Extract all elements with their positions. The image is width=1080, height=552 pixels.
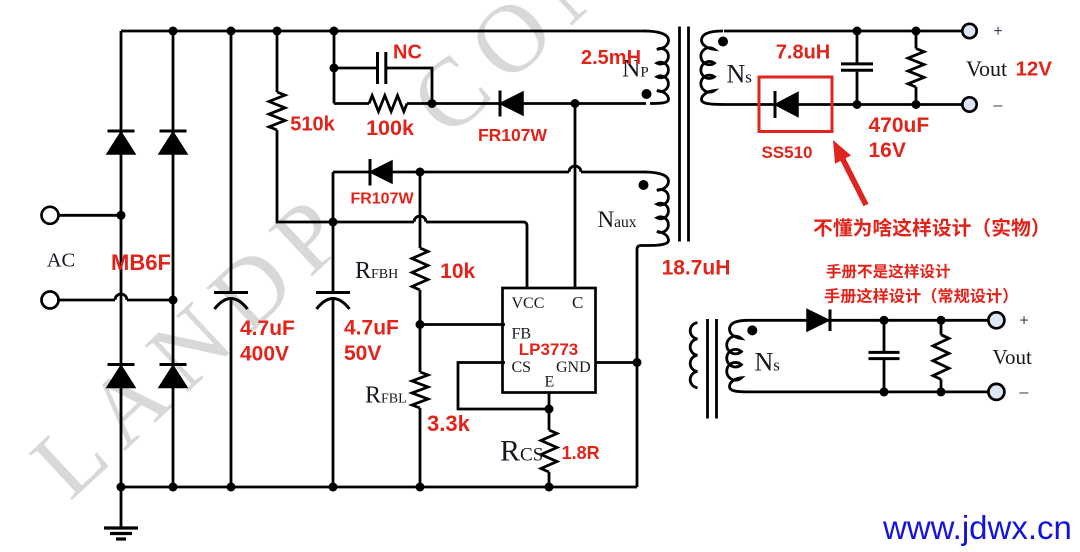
wire left vertical x121 <box>120 31 123 487</box>
second schematic: primary winding <box>690 323 697 388</box>
wire output top rail <box>724 30 962 33</box>
wire vertical x231 lower <box>230 299 233 488</box>
resistor output load <box>915 31 918 105</box>
op-amp U1 LP3773 box <box>503 288 596 393</box>
svg-text:2.5mH: 2.5mH <box>581 47 641 69</box>
terminal AC N <box>42 292 59 309</box>
red highlight box <box>759 77 832 132</box>
svg-text:400V: 400V <box>240 343 289 366</box>
wire hop over C line <box>569 166 581 172</box>
annotation text 3 <box>825 288 1008 304</box>
svg-text:510k: 510k <box>290 114 335 136</box>
second schematic: winding Ns <box>727 320 748 392</box>
wire x333 lower branch <box>332 172 335 291</box>
svg-text:12V: 12V <box>1016 58 1053 81</box>
transformer core <box>680 27 689 242</box>
resistor RCS 1.8R <box>541 430 557 472</box>
wire 510k branch x277 with turn to x333 <box>276 31 279 92</box>
diode FR107W D2 <box>369 159 372 186</box>
wire output bottom rail <box>722 103 962 106</box>
svg-text:50V: 50V <box>344 342 381 365</box>
svg-text:SS510: SS510 <box>761 143 812 162</box>
second schematic: capacitor <box>869 351 900 354</box>
node Naux phase dot <box>639 180 649 190</box>
svg-text:470uF: 470uF <box>869 114 930 137</box>
svg-text:–: – <box>994 97 1003 114</box>
svg-text:C: C <box>572 293 583 312</box>
diode bridge D4 <box>160 363 187 366</box>
second schematic: transformer core <box>708 319 717 419</box>
svg-text:+: + <box>1019 313 1028 330</box>
svg-text:GND: GND <box>556 359 591 376</box>
terminal AC L <box>42 207 59 224</box>
winding Ns 7.8uH <box>701 31 723 105</box>
node Ns phase dot <box>718 37 728 47</box>
winding Np 2.5mH <box>644 31 669 104</box>
svg-text:E: E <box>545 374 555 391</box>
wire aux return x637 <box>637 246 650 488</box>
svg-text:18.7uH: 18.7uH <box>662 257 731 280</box>
terminal Vout- <box>962 97 976 111</box>
diode SS510 <box>774 91 777 118</box>
svg-text:www.jdwx.cn: www.jdwx.cn <box>882 509 1072 546</box>
wire GND pin <box>595 361 637 364</box>
svg-text:7.8uH: 7.8uH <box>776 42 830 64</box>
wire NC top branch <box>334 67 376 70</box>
diode bridge D2 <box>160 130 187 133</box>
ground <box>120 487 123 527</box>
diode FR107W D1 <box>499 91 502 117</box>
wire vertical x173 <box>172 31 175 487</box>
capacitor NC plates <box>376 52 379 84</box>
resistor 100k <box>369 96 407 112</box>
wire aux diode row y172 <box>333 171 569 174</box>
wire top rail <box>121 30 646 33</box>
svg-text:LP3773: LP3773 <box>519 340 579 359</box>
capacitor 470uF <box>856 31 859 63</box>
svg-text:VCC: VCC <box>512 295 545 312</box>
second schematic: rectifier diode <box>807 310 829 332</box>
svg-text:MB6F: MB6F <box>111 250 171 275</box>
node Np phase dot <box>642 89 652 99</box>
wire CS loop <box>458 363 549 410</box>
svg-text:AC: AC <box>47 250 75 272</box>
second schematic: Ns phase dot <box>747 325 757 335</box>
wire FB pin <box>420 323 505 326</box>
second schematic: junction dots <box>880 316 946 397</box>
svg-text:–: – <box>1020 384 1029 401</box>
second schematic: top rail <box>748 319 989 322</box>
svg-text:10k: 10k <box>440 260 475 283</box>
wire AC neutral with hop <box>59 299 116 302</box>
diode bridge D3 <box>108 363 135 366</box>
diode bridge D1 <box>108 130 135 133</box>
svg-text:1.8R: 1.8R <box>562 443 600 463</box>
resistor 510k <box>269 92 285 130</box>
svg-text:16V: 16V <box>869 139 906 162</box>
wire VCC feed y222 <box>333 221 414 224</box>
second schematic: load resistor <box>940 320 943 392</box>
red arrow annotation <box>833 140 869 206</box>
wire AC live <box>59 214 122 217</box>
wire vertical x231 upper <box>230 31 233 291</box>
second schematic: bottom rail <box>748 390 989 393</box>
svg-text:FR107W: FR107W <box>350 191 414 208</box>
svg-text:Vout: Vout <box>966 56 1007 81</box>
terminal Vout+ <box>962 24 976 38</box>
wire bottom rail <box>121 486 637 489</box>
svg-text:+: + <box>993 23 1002 40</box>
svg-text:3.3k: 3.3k <box>427 411 471 436</box>
svg-text:Vout: Vout <box>993 345 1032 369</box>
winding Naux <box>644 172 669 246</box>
second schematic: terminals <box>988 312 1004 328</box>
svg-text:NC: NC <box>393 42 422 64</box>
wire C pin vertical x575 <box>574 104 577 289</box>
svg-text:4.7uF: 4.7uF <box>240 317 295 340</box>
svg-text:FR107W: FR107W <box>478 125 548 145</box>
capacitor 4.7uF 400V <box>214 291 248 294</box>
resistor RFBH 10k <box>412 248 428 290</box>
wire E pin stub <box>548 393 551 430</box>
capacitor 4.7uF 50V <box>316 291 350 294</box>
wire hop over RFB line <box>414 216 426 222</box>
svg-text:100k: 100k <box>366 116 414 140</box>
annotation text 2 <box>827 264 951 279</box>
svg-text:4.7uF: 4.7uF <box>344 317 399 340</box>
wire NC branch vertical x334 <box>333 31 336 104</box>
wire RFB vertical x420 <box>419 172 422 248</box>
wire snubber row y103.5 <box>334 102 369 105</box>
annotation text 1 (shiwu) <box>814 218 1038 237</box>
svg-text:CS: CS <box>512 359 532 376</box>
resistor RFBL 3.3k <box>412 372 428 408</box>
